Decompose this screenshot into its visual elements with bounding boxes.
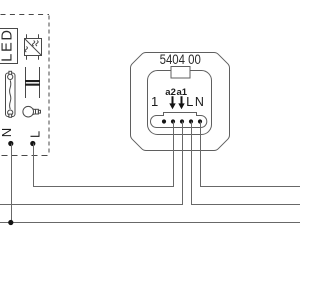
junction dot N: [8, 141, 13, 146]
conventional transformer symbol: [25, 67, 40, 98]
terminal dot 1: [162, 119, 166, 123]
wire terminal 3 to left edge: [0, 122, 183, 205]
arrow a2: [169, 96, 175, 109]
actuator top tab: [171, 67, 190, 79]
svg-text:L: L: [186, 94, 193, 109]
load group dashed box top border: [0, 14, 49, 16]
junction dot L: [30, 141, 35, 146]
neutral bus wire: [0, 222, 300, 224]
wire terminal 5 to right edge: [201, 122, 301, 187]
load group dashed box bottom border: [0, 155, 49, 157]
svg-text:5404 00: 5404 00: [160, 52, 201, 67]
svg-text:1: 1: [151, 94, 158, 109]
svg-text:L: L: [28, 131, 43, 138]
wire L load to terminal 2: [34, 122, 174, 187]
terminal dot 4: [189, 119, 193, 123]
incandescent lamp symbol: [23, 106, 41, 117]
wire terminal 4 to right edge: [192, 122, 301, 205]
svg-text:N: N: [195, 95, 204, 109]
actuator 5404 00 outline: [131, 53, 230, 151]
fluorescent lamp symbol: [6, 71, 16, 117]
terminal dot 5: [198, 119, 202, 123]
actuator inner frame: [148, 71, 212, 135]
load group dashed box right border: [48, 15, 50, 156]
wire N load down: [11, 144, 13, 223]
junction dot bus: [8, 220, 13, 225]
LED lamp box: [0, 29, 18, 64]
svg-text:a2: a2: [165, 87, 176, 98]
svg-text:LED: LED: [0, 28, 15, 62]
terminal dot 3: [180, 119, 184, 123]
terminal strip: [151, 113, 207, 128]
electronic transformer symbol: [25, 34, 42, 59]
arrow a1: [178, 96, 184, 109]
svg-text:N: N: [0, 128, 14, 137]
terminal dot 2: [171, 119, 175, 123]
